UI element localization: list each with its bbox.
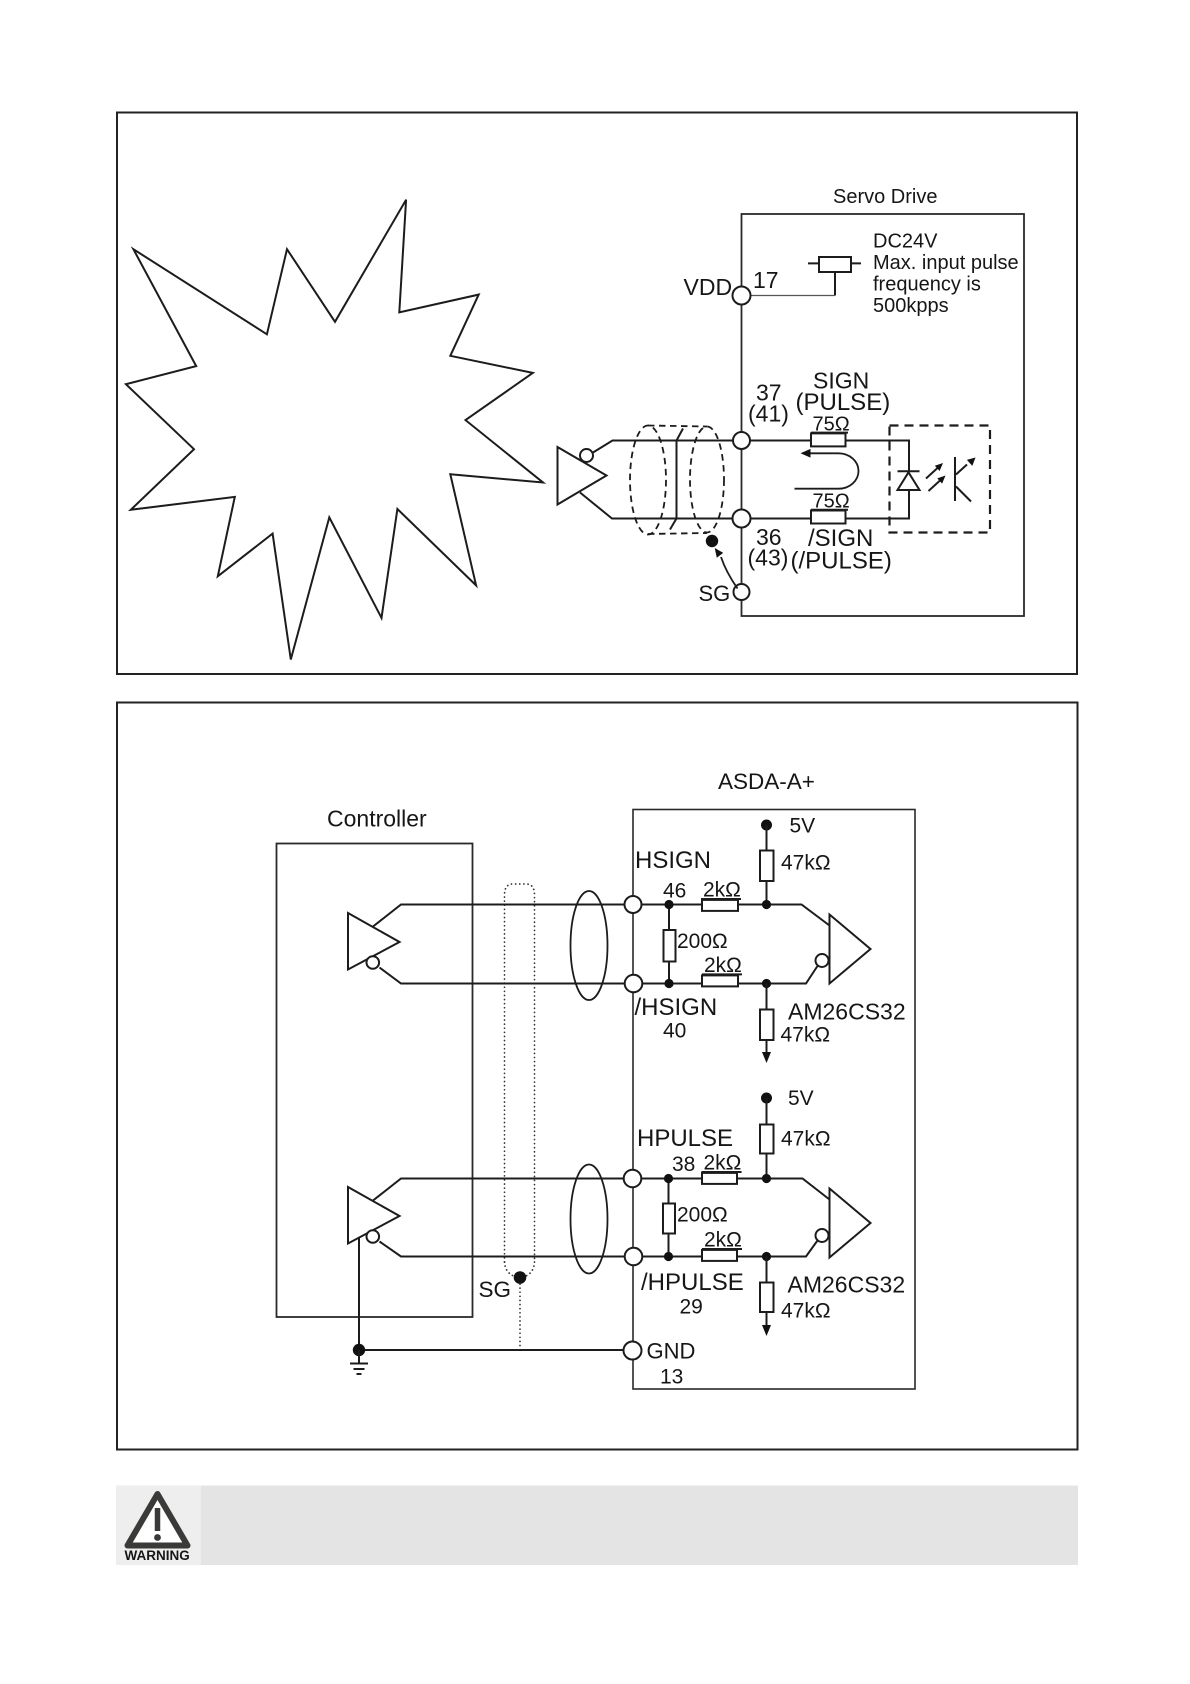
svg-text:(PULSE): (PULSE)	[796, 389, 891, 416]
svg-text:47kΩ: 47kΩ	[781, 852, 831, 875]
svg-text:5V: 5V	[790, 815, 816, 838]
svg-text:VDD: VDD	[684, 274, 733, 300]
svg-text:ASDA-A+: ASDA-A+	[718, 769, 815, 794]
svg-text:GND: GND	[647, 1339, 696, 1364]
svg-text:47kΩ: 47kΩ	[781, 1024, 831, 1047]
svg-text:AM26CS32: AM26CS32	[788, 999, 906, 1025]
svg-text:47kΩ: 47kΩ	[781, 1128, 831, 1151]
svg-text:75Ω: 75Ω	[813, 413, 850, 435]
svg-text:WARNING: WARNING	[125, 1548, 190, 1563]
svg-text:(/PULSE): (/PULSE)	[791, 548, 892, 575]
svg-text:HSIGN: HSIGN	[635, 847, 711, 874]
svg-text:5V: 5V	[788, 1087, 814, 1110]
svg-text:Controller: Controller	[327, 806, 427, 832]
svg-text:DC24V: DC24V	[873, 231, 938, 253]
svg-text:17: 17	[753, 267, 779, 293]
svg-text:40: 40	[663, 1020, 686, 1043]
svg-text:200Ω: 200Ω	[677, 1204, 728, 1227]
svg-text:2kΩ: 2kΩ	[704, 1229, 742, 1252]
svg-text:/HPULSE: /HPULSE	[641, 1269, 744, 1296]
svg-text:47kΩ: 47kΩ	[781, 1300, 831, 1323]
svg-text:/HSIGN: /HSIGN	[635, 994, 718, 1021]
svg-text:AM26CS32: AM26CS32	[788, 1272, 906, 1298]
svg-text:200Ω: 200Ω	[677, 930, 728, 953]
svg-text:2kΩ: 2kΩ	[703, 879, 741, 902]
svg-text:Servo Drive: Servo Drive	[833, 186, 937, 208]
svg-text:2kΩ: 2kΩ	[704, 1152, 742, 1175]
svg-text:(43): (43)	[748, 545, 789, 571]
svg-text:(41): (41)	[748, 401, 789, 427]
svg-text:13: 13	[660, 1366, 683, 1389]
svg-text:29: 29	[680, 1296, 703, 1319]
svg-text:SG: SG	[479, 1277, 512, 1302]
svg-text:38: 38	[672, 1153, 695, 1176]
svg-text:2kΩ: 2kΩ	[704, 954, 742, 977]
svg-text:frequency is: frequency is	[873, 274, 981, 296]
svg-text:SG: SG	[699, 581, 731, 606]
svg-text:500kpps: 500kpps	[873, 295, 949, 317]
svg-text:46: 46	[663, 880, 686, 903]
svg-text:HPULSE: HPULSE	[637, 1125, 733, 1152]
svg-text:75Ω: 75Ω	[813, 490, 850, 512]
svg-text:Max. input pulse: Max. input pulse	[873, 252, 1019, 274]
